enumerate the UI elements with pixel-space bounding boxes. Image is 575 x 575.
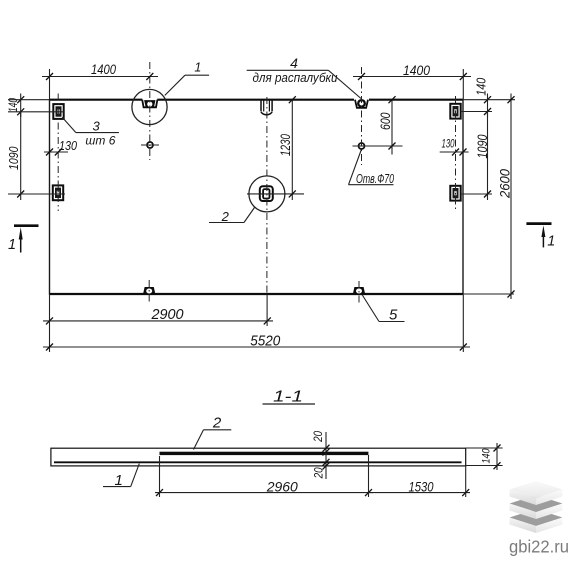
extension plate row2 right [461,193,492,195]
logo slab stack bottom [510,509,563,533]
dimension 2600 vertical [497,94,515,300]
dimension 1400 top-left line [42,61,158,80]
embedded plate 3 bottom-right [450,186,460,201]
extension plate row2 left [8,193,65,195]
slab outline top edge right part [369,99,463,101]
centerline loop4 vertical [361,67,363,165]
extension band right end [368,455,370,497]
slab outline right edge [462,99,464,295]
slab outline top edge left part [50,99,143,101]
svg-text:5: 5 [389,306,398,323]
extension plate row1 left [8,111,64,113]
centerline bottom loop 5 [358,281,360,303]
extension section right end below [465,466,467,498]
section marker left [8,226,39,253]
svg-text:1: 1 [8,237,16,253]
centerline left plate column [57,94,59,212]
dimension 1400 top-right line [353,62,471,80]
extension bottom edge to right [463,293,514,295]
svg-text:20: 20 [311,431,325,443]
svg-text:2900: 2900 [151,306,185,323]
demoulding loop 4 cutout [355,100,368,108]
svg-text:2: 2 [212,415,222,432]
dimension 140 right vertical [474,78,491,117]
extension top edge to right [463,99,515,101]
svg-text:600: 600 [378,112,393,130]
extension top edge to left [8,99,50,101]
dimension 140 section [481,443,501,470]
centerline hole left horizontal [141,144,159,146]
label Отв.Ф70 [349,150,395,186]
extension right edge above top [462,69,464,99]
bottom loop 5 [353,287,365,294]
svg-text:2600: 2600 [497,169,513,199]
embedded plate 2 in detail circle [260,186,273,201]
bottom loop left [143,287,155,294]
centerline bottom loop left [148,280,150,303]
dimension 1230 vertical [278,96,296,200]
svg-text:1400: 1400 [403,62,430,78]
dimension 1090 right vertical [475,112,491,201]
dimension 1090 left vertical [6,112,24,200]
embedded plate 3 top-left [53,104,63,119]
svg-text:1090: 1090 [475,134,490,158]
svg-text:1: 1 [194,61,201,75]
svg-text:1230: 1230 [278,134,293,156]
section label 2 leader [194,415,232,450]
embedded sleeve top-middle [261,100,272,115]
embedded plate 3 top-right [450,104,460,119]
centerline right plate column [455,96,457,210]
svg-text:шт 6: шт 6 [85,133,115,147]
hole right Отв.Ф70 [359,143,365,149]
centerline hole right horizontal [353,145,403,147]
centerline middle axis vertical [266,97,268,293]
extension plate row1 right [461,111,492,113]
dimension 600 vertical [378,96,396,154]
svg-text:3: 3 [92,118,100,133]
svg-text:20: 20 [312,467,326,479]
label 3 шт 6 [62,117,119,147]
detail circle 1 [132,89,167,124]
dimension 130 right [440,137,469,156]
dimension 2900 [43,306,273,324]
detail circle 2 [249,176,285,212]
svg-text:2: 2 [221,209,230,224]
section outline [51,448,466,466]
slab outline left edge [49,99,51,295]
slab outline top edge middle part [157,99,354,101]
label 5 leader [362,295,405,324]
label 2 leader [209,208,255,225]
svg-text:1-1: 1-1 [273,389,303,406]
svg-text:Отв.Ф70: Отв.Ф70 [356,172,394,186]
logo slab stack top [510,481,563,505]
svg-text:130: 130 [442,137,455,151]
slab outline bottom edge [50,293,464,295]
svg-text:1530: 1530 [409,479,434,495]
extension right edge below [462,295,464,352]
lifting loop 1 cutout [142,100,157,108]
extension section bottom right [466,465,503,467]
embedded plate 3 bottom-left [53,185,63,200]
extension band left end [159,456,161,497]
section marker right [526,224,555,250]
logo slab stack middle [510,495,563,519]
section mesh 1 line [54,461,462,463]
extension section top right [466,447,503,449]
dimension 20 upper [311,431,330,479]
svg-text:gbi22.ru: gbi22.ru [509,537,569,557]
svg-text:5520: 5520 [250,332,281,349]
dimension 5520 [43,332,470,350]
dimension 140 left vertical [8,94,24,118]
svg-text:4: 4 [290,55,298,71]
label 4 для распалубки [247,55,361,99]
section title 1-1 [263,389,316,406]
svg-text:130: 130 [59,139,77,153]
dimension 2960 [155,479,373,497]
centerline loop1 vertical [149,62,151,160]
svg-text:1090: 1090 [6,146,21,170]
svg-text:1: 1 [547,234,555,250]
dimension 130 left [44,139,77,156]
centerline detail2 horizontal [247,193,304,195]
label 1 leader [165,61,209,96]
extension left edge above top [49,69,51,99]
svg-text:для распалубки: для распалубки [253,70,338,85]
svg-text:1400: 1400 [91,61,116,77]
svg-text:140: 140 [481,448,493,464]
hole left [147,142,153,148]
extension middle axis below [266,294,268,326]
extension left edge below [49,295,51,352]
section plate 2 band [160,452,369,455]
svg-text:2960: 2960 [266,479,298,495]
section label 1 leader [103,464,139,489]
svg-text:140: 140 [474,78,488,96]
dimension 1530 [369,479,471,497]
